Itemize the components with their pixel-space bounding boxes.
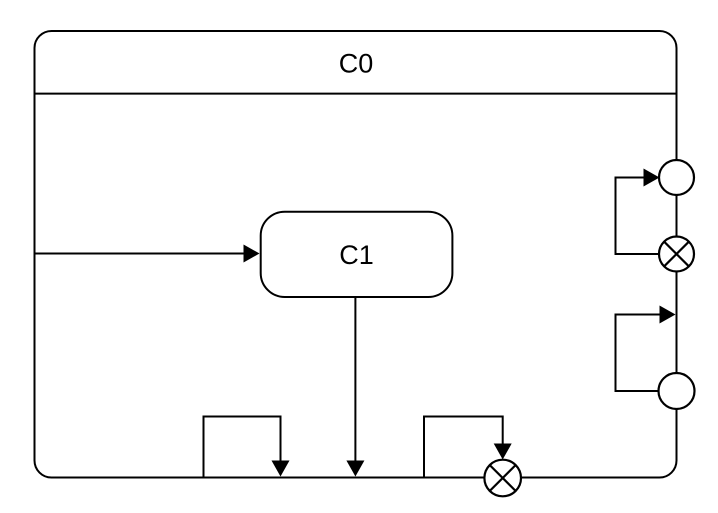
state C1 (inner rounded box) xyxy=(261,212,453,297)
wire: arrow from left border into C1 xyxy=(36,253,247,255)
wire: loop from circle C up into right border xyxy=(616,315,662,392)
circle A (empty circle on right border) xyxy=(659,160,694,195)
wire: arrow from C1 down to bottom border xyxy=(354,297,356,463)
title separator line xyxy=(35,93,677,95)
wire: loop from junction B up into circle A xyxy=(616,178,661,255)
junction B (crossed circle on right border) xyxy=(659,237,694,272)
svg-text:C0: C0 xyxy=(339,49,374,79)
junction D (crossed circle on bottom border) xyxy=(484,460,521,497)
wire: bottom-right loop into junction D xyxy=(424,417,503,477)
circle C (empty circle on right border) xyxy=(659,373,695,409)
wire: bottom-left self loop on border xyxy=(204,417,281,477)
state C0 (outer rounded container) xyxy=(35,31,677,478)
svg-text:C1: C1 xyxy=(339,240,374,270)
